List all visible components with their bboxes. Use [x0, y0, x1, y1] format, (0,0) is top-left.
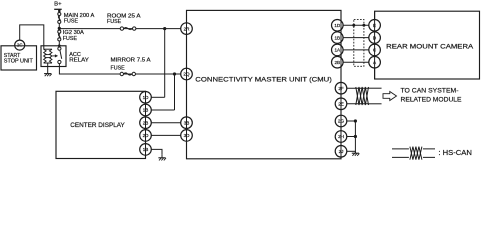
svg-text:MIRROR 7.5 A: MIRROR 7.5 A — [111, 57, 152, 63]
svg-text:RELATED MODULE: RELATED MODULE — [401, 97, 463, 104]
svg-text:RELAY: RELAY — [69, 58, 89, 64]
svg-text:2C: 2C — [17, 43, 23, 48]
svg-text:: HS-CAN: : HS-CAN — [438, 148, 472, 157]
svg-text:CENTER DISPLAY: CENTER DISPLAY — [70, 122, 125, 129]
svg-text:B+: B+ — [54, 1, 62, 7]
svg-text:2B: 2B — [334, 60, 340, 65]
svg-text:FUSE: FUSE — [111, 65, 126, 71]
svg-text:CONNECTIVITY MASTER UNIT (CMU): CONNECTIVITY MASTER UNIT (CMU) — [195, 76, 331, 83]
svg-text:FUSE: FUSE — [107, 19, 122, 25]
svg-text:1D: 1D — [334, 23, 341, 28]
svg-text:STOP UNIT: STOP UNIT — [4, 59, 34, 65]
svg-text:1A: 1A — [334, 48, 341, 53]
svg-text:TO CAN SYSTEM-: TO CAN SYSTEM- — [401, 87, 459, 94]
svg-text:FUSE: FUSE — [64, 19, 79, 25]
svg-text:REAR MOUNT CAMERA: REAR MOUNT CAMERA — [386, 43, 474, 50]
svg-text:FUSE: FUSE — [63, 36, 78, 42]
svg-text:1B: 1B — [334, 35, 340, 40]
